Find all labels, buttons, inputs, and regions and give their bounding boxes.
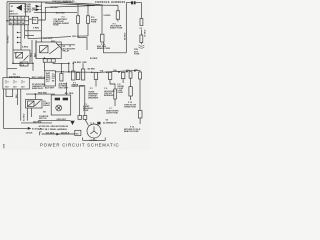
fuse F9 xyxy=(129,72,132,100)
svg-text:BREAKER: BREAKER xyxy=(104,94,114,97)
bus amp labels xyxy=(100,68,139,72)
fuse F2b body xyxy=(140,30,143,45)
wire K2 feed from harness xyxy=(40,2,42,42)
svg-text:24 BLK: 24 BLK xyxy=(26,132,33,135)
wire S1 column I xyxy=(20,25,22,50)
svg-text:B2 RED: B2 RED xyxy=(51,7,59,9)
wire label 1D RED rotated xyxy=(144,29,146,37)
svg-text:RED RED: RED RED xyxy=(38,93,48,95)
svg-text:LIGHT FUSE: LIGHT FUSE xyxy=(106,112,119,114)
label below J2 xyxy=(45,88,55,90)
wire stub xyxy=(25,34,34,36)
svg-text:CONSOLE HARNESS: CONSOLE HARNESS xyxy=(95,1,126,4)
alternator terminals xyxy=(91,122,94,124)
fuse F4 drop xyxy=(116,5,119,21)
connector arrow down xyxy=(70,121,74,125)
wire RED to relay xyxy=(26,93,55,95)
alternator label xyxy=(103,119,117,124)
fuse F6 labels xyxy=(104,88,115,97)
wire K2 to bus xyxy=(43,62,45,71)
terminal table text xyxy=(10,18,33,25)
wire right branch xyxy=(139,70,142,110)
svg-text:BODY 2B C PANEL HARNESS: BODY 2B C PANEL HARNESS xyxy=(39,128,68,131)
svg-text:S RED: S RED xyxy=(33,27,40,29)
relay K2 label xyxy=(63,46,76,52)
svg-text:A RED: A RED xyxy=(22,46,29,49)
fuse F2b label xyxy=(134,49,140,55)
wire to K2 relay coil xyxy=(25,30,41,32)
switch contact dots xyxy=(17,32,18,43)
key switch S1 box xyxy=(9,4,25,17)
relay K2 box xyxy=(36,42,61,59)
svg-text:B1 RED: B1 RED xyxy=(8,35,10,43)
svg-text:G2 BLK: G2 BLK xyxy=(89,140,97,142)
wire harness top line 1 xyxy=(7,2,118,5)
svg-text:RELAY: RELAY xyxy=(43,104,50,107)
wire label 14 RED xyxy=(103,14,111,17)
rotated wire labels xyxy=(30,52,36,57)
wire label 24A RED xyxy=(33,120,42,123)
svg-text:BLU RED: BLU RED xyxy=(43,38,52,40)
connector ends xyxy=(78,116,87,120)
wire stubs from arrows xyxy=(40,6,42,9)
svg-text:24A RED: 24A RED xyxy=(33,120,42,123)
main bus B2 RED xyxy=(55,70,140,72)
svg-text:-IGN-ST: -IGN-ST xyxy=(24,11,32,13)
svg-text:BATTERIES: BATTERIES xyxy=(9,76,21,79)
fuse F16 label xyxy=(91,17,98,23)
wire label B4 RED rotated xyxy=(123,32,126,40)
wire label B1 RED vertical xyxy=(8,35,10,43)
rotated labels battery wires xyxy=(16,93,26,121)
small text below xyxy=(26,132,33,135)
fuse F13 drop xyxy=(101,5,104,53)
M1 motor symbol xyxy=(56,105,62,111)
svg-text:14 RED: 14 RED xyxy=(103,14,111,17)
wire RED diagonal into K2 xyxy=(56,43,63,50)
junction at K3 bottom xyxy=(12,63,14,65)
period dot xyxy=(40,128,41,129)
svg-text:RED: RED xyxy=(30,52,32,57)
battery cell labels xyxy=(5,87,25,89)
wire from F16 down xyxy=(87,23,89,36)
svg-text:BREAKER: BREAKER xyxy=(88,96,98,99)
svg-text:B3 RED: B3 RED xyxy=(90,58,98,60)
W1 box xyxy=(75,130,81,135)
svg-text:B1 RED: B1 RED xyxy=(24,113,26,121)
ground loop label xyxy=(89,140,97,142)
fuse F2 right body xyxy=(140,19,143,26)
wire ORG WHT bottom xyxy=(38,120,71,122)
stub to K1 xyxy=(34,94,36,99)
wire label BLU RED xyxy=(56,12,65,14)
wire drop to bus xyxy=(32,63,34,71)
wire K2 strip output xyxy=(53,62,69,72)
harness text block xyxy=(32,84,46,90)
junction at battery feed xyxy=(6,20,8,22)
svg-text:1D RED: 1D RED xyxy=(144,29,146,37)
wire S1 column S xyxy=(24,25,26,39)
connector arrow inside S1 xyxy=(16,5,22,11)
stub line xyxy=(7,68,17,70)
svg-text:10A: 10A xyxy=(126,69,130,72)
junction below K2 xyxy=(44,57,45,58)
svg-text:24A BLK: 24A BLK xyxy=(61,132,70,135)
wire BLU RED xyxy=(34,12,77,14)
svg-text:FUSE: FUSE xyxy=(118,92,124,94)
svg-text:FUSE: FUSE xyxy=(83,110,89,112)
text block F7 xyxy=(106,108,119,114)
M1 label xyxy=(39,112,49,120)
label RED RED xyxy=(38,93,48,95)
svg-text:BEACON FUSE: BEACON FUSE xyxy=(124,130,139,133)
svg-text:ORG WHT: ORG WHT xyxy=(56,119,66,121)
wire harness top line 2 xyxy=(45,3,95,5)
battery negative wires xyxy=(6,89,13,97)
wire label RED CHARGE xyxy=(32,76,46,79)
junction dots K2 output xyxy=(68,63,70,73)
svg-text:10A: 10A xyxy=(113,69,117,72)
battery cells xyxy=(6,80,24,84)
svg-text:BRAKE FUSE: BRAKE FUSE xyxy=(97,47,111,50)
connector symbol xyxy=(139,45,145,48)
svg-text:B2 RED: B2 RED xyxy=(88,69,96,71)
wire label 30A RED xyxy=(73,61,88,64)
svg-text:30A RED: 30A RED xyxy=(73,61,82,64)
svg-text:B1L RED: B1L RED xyxy=(65,93,74,95)
label B- BLK xyxy=(32,129,39,131)
fuse F6 xyxy=(108,72,116,106)
wire stub above K2 label xyxy=(57,45,75,47)
labels below center fuses xyxy=(59,82,69,89)
fuse F5 xyxy=(94,72,98,86)
svg-text:10A: 10A xyxy=(134,68,138,71)
K2 terminal strip xyxy=(43,59,55,62)
fuse F8 xyxy=(121,72,125,83)
svg-text:FUSE: FUSE xyxy=(53,25,59,27)
wire label near M1 xyxy=(65,93,74,95)
svg-text:B4 RED: B4 RED xyxy=(123,32,126,40)
svg-text:BLK: BLK xyxy=(16,93,18,98)
batteries label xyxy=(9,74,21,78)
svg-text:MOTOR: MOTOR xyxy=(39,118,47,120)
svg-text:G2L BLK: G2L BLK xyxy=(46,133,55,135)
relay K1 label xyxy=(43,101,50,107)
svg-text:RELAY: RELAY xyxy=(63,50,70,53)
wire B2 RED top xyxy=(45,5,103,7)
svg-text:RED CHARGE: RED CHARGE xyxy=(32,76,46,79)
wire battery negative left xyxy=(4,89,28,128)
wire S1 column extra xyxy=(27,25,29,39)
battery aid fuse text block F2 xyxy=(53,16,69,26)
fuse F10 labels xyxy=(124,102,136,108)
junction on RED wire xyxy=(35,93,37,95)
S1 terminal list text xyxy=(24,3,37,13)
relay K3 box xyxy=(13,50,30,63)
wire B1 RED battery feed xyxy=(6,2,8,78)
wire ORG WHT long xyxy=(28,36,88,39)
svg-text:FUSE: FUSE xyxy=(134,53,140,55)
junction block J2 xyxy=(45,71,56,86)
svg-text:SWITCH: SWITCH xyxy=(10,13,18,15)
W1 label xyxy=(76,133,80,135)
wire from F2a down xyxy=(78,23,87,50)
svg-text:RADIO FUSE: RADIO FUSE xyxy=(110,27,123,30)
node CONSOLE HARNESS label xyxy=(52,0,126,4)
starter motor M1 box xyxy=(51,95,70,115)
alternator terminal blob xyxy=(97,122,100,125)
svg-text:15A: 15A xyxy=(100,69,104,72)
fuse F15 label xyxy=(33,19,37,21)
K1 bottom wires xyxy=(27,108,31,121)
fuse F5 labels xyxy=(88,88,98,100)
svg-text:ACTER YEL GRN WHT/GRN SE: ACTER YEL GRN WHT/GRN SE xyxy=(39,125,69,128)
M1 solenoid contacts xyxy=(55,98,68,101)
label ORG WHT xyxy=(56,119,66,121)
wire to fuse F15 xyxy=(38,7,46,20)
alternator G2 circle xyxy=(87,124,101,138)
svg-text:POWER CIRCUIT SCHEMATIC: POWER CIRCUIT SCHEMATIC xyxy=(40,143,119,148)
battery G1 box xyxy=(3,78,29,89)
text block V3 xyxy=(83,104,93,112)
bus junction dots xyxy=(77,70,135,73)
fuse F16 body xyxy=(86,4,89,23)
wire label B2 RED xyxy=(51,2,74,9)
fuse F15 box xyxy=(32,17,38,23)
wire S1 column B xyxy=(12,25,14,50)
fuse F8 labels xyxy=(118,84,125,94)
fuse F13 right xyxy=(138,111,142,125)
relay K3 text xyxy=(14,52,17,54)
svg-text:FUSE: FUSE xyxy=(91,22,97,24)
doc number xyxy=(3,143,6,148)
S1 terminal table xyxy=(7,16,29,25)
svg-text:HORN FUSE: HORN FUSE xyxy=(124,106,136,108)
svg-text:BLU RED: BLU RED xyxy=(56,12,65,14)
fuse F3 label xyxy=(72,82,85,88)
harness text rows xyxy=(39,125,69,131)
fuse FA lighting xyxy=(76,72,80,79)
junction xyxy=(73,63,74,64)
wire RED CHARGE xyxy=(29,78,45,80)
fuse F1 label xyxy=(61,72,65,74)
svg-text:BASE ELEC: BASE ELEC xyxy=(32,87,44,90)
fuse F2 right label xyxy=(140,28,143,30)
arrow head B- xyxy=(28,127,31,130)
title xyxy=(40,143,119,148)
wire tiny labels xyxy=(22,27,40,48)
wire label B2 RED upper xyxy=(90,58,98,60)
key switch S1 label xyxy=(10,6,18,15)
wire vertical pair labels xyxy=(32,40,36,63)
fuse F3 xyxy=(72,63,76,80)
ground chain wire xyxy=(40,132,75,136)
fuse F13 labels xyxy=(124,127,141,133)
svg-text:BRN RED: BRN RED xyxy=(64,2,74,4)
label box G8 BLK xyxy=(20,62,28,66)
wire to alternator xyxy=(85,119,89,125)
chain arrow xyxy=(56,133,59,136)
fuse F19 label xyxy=(97,44,111,50)
fuse F4 label xyxy=(110,22,123,29)
svg-text:ALTERNATOR: ALTERNATOR xyxy=(103,122,117,125)
alternator ground loop xyxy=(83,138,106,141)
wire lower parallel xyxy=(21,122,52,124)
wires to connectors xyxy=(80,86,85,116)
wire F13 to right loop xyxy=(103,52,126,54)
fuse F3a xyxy=(81,63,85,80)
J2 text rows xyxy=(46,72,55,83)
svg-text:BLK WHT: BLK WHT xyxy=(45,88,55,90)
junction dot xyxy=(32,63,33,64)
fuse F1 xyxy=(60,63,63,81)
relay K1 box xyxy=(26,100,43,109)
wire to starter solenoid xyxy=(66,83,68,96)
connector on top right loop xyxy=(131,1,136,4)
battery positive drop wires xyxy=(18,89,21,121)
bus label B2 RED xyxy=(88,69,96,71)
chain labels xyxy=(46,132,70,135)
fuse F2a body xyxy=(76,4,79,23)
connector arrow pair right of S1 xyxy=(36,5,40,11)
wire K3 bottom bus xyxy=(13,62,33,64)
svg-text:ORG WHT: ORG WHT xyxy=(59,87,69,89)
wire top right loop xyxy=(126,3,141,53)
switch contact ticks xyxy=(18,33,22,43)
